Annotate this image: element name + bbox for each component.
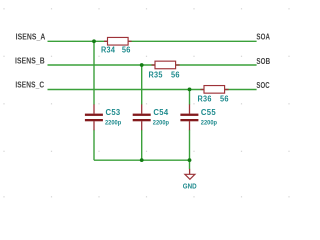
- junction bus-C54: [140, 158, 144, 162]
- wire node C down to C55 pin 1: [189, 90, 191, 105]
- C53 pin 1: [93, 104, 95, 113]
- svg-text:C55: C55: [201, 108, 216, 117]
- svg-text:R36: R36: [198, 94, 212, 103]
- C55 pin 2: [189, 121, 191, 130]
- svg-text:GND: GND: [183, 181, 197, 190]
- resistor R34: [101, 37, 132, 54]
- R35 body: [155, 61, 176, 69]
- wire ISENS_A to SOA: [48, 40, 257, 42]
- C55 top plate: [180, 114, 198, 116]
- R35 pin 1: [152, 64, 156, 66]
- C54 pin 1: [141, 104, 143, 113]
- svg-text:ISENS_A: ISENS_A: [16, 33, 46, 42]
- junction bus-GND: [188, 158, 192, 162]
- R36 pin 1: [201, 89, 205, 91]
- ground symbol: [183, 169, 197, 190]
- svg-text:R35: R35: [149, 70, 163, 79]
- R36 body: [204, 86, 225, 94]
- svg-text:2200p: 2200p: [153, 119, 169, 126]
- resistor R36: [198, 86, 230, 104]
- svg-text:56: 56: [220, 94, 229, 103]
- svg-text:C54: C54: [153, 108, 168, 117]
- junction node A: [92, 39, 96, 43]
- svg-text:56: 56: [122, 45, 131, 54]
- wire bottom bus: [94, 159, 190, 161]
- junction node B: [140, 63, 144, 67]
- junction node C: [188, 88, 192, 92]
- svg-text:R34: R34: [101, 45, 115, 54]
- C54 top plate: [133, 114, 151, 116]
- wire C54 pin 2 down to bottom bus: [141, 130, 143, 160]
- C54 pin 2: [141, 121, 143, 130]
- capacitor C55: [180, 104, 217, 130]
- svg-text:SOB: SOB: [256, 57, 270, 66]
- R36 pin 2: [225, 89, 229, 91]
- capacitor C53: [85, 104, 122, 130]
- R34 pin 2: [128, 40, 132, 42]
- wire node A down to C53 pin 1: [93, 41, 95, 104]
- svg-text:56: 56: [171, 70, 180, 79]
- wire node B down to C54 pin 1: [141, 65, 143, 105]
- svg-text:2200p: 2200p: [201, 119, 217, 126]
- R34 pin 1: [104, 40, 108, 42]
- R34 body: [108, 37, 129, 45]
- R35 pin 2: [176, 64, 180, 66]
- svg-text:SOA: SOA: [256, 32, 270, 41]
- C53 pin 2: [93, 121, 95, 130]
- wire ISENS_C to SOC: [48, 89, 257, 91]
- resistor R35: [149, 61, 181, 79]
- svg-text:SOC: SOC: [256, 81, 269, 90]
- wire ISENS_B to SOB: [48, 64, 257, 66]
- ground triangle: [185, 174, 195, 179]
- svg-text:C53: C53: [106, 108, 121, 117]
- C55 pin 1: [189, 104, 191, 113]
- wire C53 pin 2 down to bottom bus: [93, 130, 95, 160]
- capacitor C54: [133, 104, 170, 130]
- C54 bottom plate: [133, 119, 151, 121]
- C53 bottom plate: [85, 119, 103, 121]
- svg-text:ISENS_C: ISENS_C: [15, 80, 44, 89]
- C55 bottom plate: [180, 119, 198, 121]
- svg-text:ISENS_B: ISENS_B: [15, 56, 45, 65]
- ground pin stem: [189, 169, 191, 174]
- wire C55 pin 2 down through bus to GND: [189, 130, 191, 169]
- svg-text:2200p: 2200p: [105, 119, 121, 126]
- C53 top plate: [85, 114, 103, 116]
